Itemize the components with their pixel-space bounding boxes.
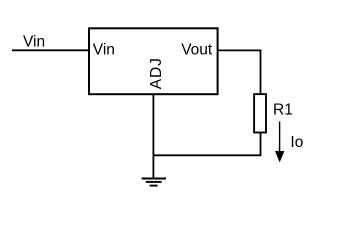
regulator U1 box: [89, 28, 218, 94]
svg-text:Vin: Vin: [93, 41, 115, 58]
svg-text:Vin: Vin: [23, 34, 45, 51]
ground: [142, 179, 166, 186]
wire Vout horizontal: [218, 49, 261, 51]
svg-text:R1: R1: [273, 102, 293, 119]
current arrow Io: [275, 122, 284, 163]
svg-text:Io: Io: [290, 134, 303, 151]
wire ADJ pin vertical: [152, 94, 154, 178]
wire resistor bottom vertical: [260, 133, 262, 156]
wire bottom horizontal: [153, 154, 261, 156]
resistor R1: [254, 94, 266, 132]
wire Vout to resistor vertical: [260, 50, 262, 95]
svg-text:Vout: Vout: [181, 41, 213, 58]
svg-text:ADJ: ADJ: [148, 57, 165, 89]
wire input Vin: [12, 49, 89, 51]
